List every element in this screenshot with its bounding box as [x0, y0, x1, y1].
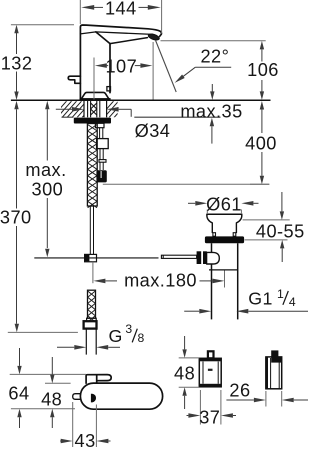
dimension diameter 34 hole	[56, 107, 171, 141]
dimension 106 right	[161, 41, 279, 100]
side cable tube cap	[95, 123, 104, 127]
braided supply hose with cross hatch	[88, 290, 96, 322]
drain body	[211, 243, 213, 319]
dimension 48 control box	[174, 336, 199, 409]
dimension 26 control box depth	[226, 381, 308, 407]
G3/8 threaded nipple	[85, 329, 87, 355]
hose collar	[87, 318, 97, 321]
dimension 48 front view	[41, 357, 71, 428]
rod lower stub below junction	[92, 262, 94, 283]
pop-up rod junction block	[85, 254, 97, 261]
angle 22 degrees with leader	[153, 41, 231, 100]
faucet spout body outline	[80, 25, 161, 100]
svg-text:1: 1	[277, 287, 284, 301]
front view lever handle	[86, 375, 111, 384]
dimension 107	[94, 57, 152, 100]
svg-text:26: 26	[229, 381, 250, 401]
svg-text:max.: max.	[25, 160, 66, 180]
dimension 370 left	[0, 101, 78, 333]
faucet shank in deck section	[88, 101, 100, 117]
svg-text:48: 48	[41, 389, 62, 409]
mounting hole edges in deck	[83, 101, 85, 117]
svg-text:64: 64	[8, 383, 29, 403]
dimension 400	[245, 101, 277, 184]
dimension 132 left	[1, 25, 74, 100]
drain rubber gasket (black band)	[205, 236, 244, 243]
backnut and washer under deck (black)	[74, 118, 111, 124]
side cable tube upper	[99, 128, 101, 139]
svg-text:Ø34: Ø34	[135, 121, 171, 141]
svg-text:144: 144	[105, 0, 137, 18]
svg-text:8: 8	[138, 331, 145, 345]
svg-text:43: 43	[75, 431, 96, 450]
faucet front view body (capsule)	[80, 383, 162, 409]
svg-text:300: 300	[32, 180, 64, 200]
drain flange tabs	[213, 233, 216, 237]
front view sensor window (black)	[91, 394, 96, 403]
svg-text:max.180: max.180	[124, 271, 197, 291]
drain body shoulder line	[209, 269, 238, 271]
dimension max.300	[25, 101, 66, 257]
escutcheon base on deck	[81, 92, 109, 99]
black filter / connector on side tube	[96, 170, 106, 182]
svg-text:132: 132	[1, 54, 33, 74]
dimension diameter 61 drain flange	[188, 194, 259, 214]
control box front view	[199, 358, 221, 387]
pop-up rod vertical thin tube	[89, 206, 91, 254]
drain flange top line	[206, 213, 242, 215]
dimension 64	[8, 348, 86, 428]
svg-text:Ø61: Ø61	[206, 194, 242, 214]
horizontal pop-up rod left segment	[34, 257, 158, 259]
svg-text:22°: 22°	[200, 47, 229, 67]
svg-text:max.35: max.35	[180, 102, 242, 122]
deck top surface line	[11, 99, 271, 101]
dimension 43	[60, 402, 111, 450]
svg-text:40-55: 40-55	[256, 221, 305, 241]
deck bottom line left segment	[62, 116, 74, 118]
control box cable stub	[208, 351, 214, 358]
svg-text:4: 4	[289, 295, 296, 309]
label G1 1/4 with leader	[184, 287, 308, 314]
drain flange outline	[207, 214, 242, 232]
svg-text:G: G	[108, 326, 122, 346]
svg-text:37: 37	[199, 408, 220, 428]
front view supply stub	[73, 394, 81, 400]
dimension 144 top	[80, 0, 161, 33]
aerator outlet (dark)	[148, 33, 160, 41]
drain lever ball housing	[207, 252, 220, 264]
horizontal actuating rod to drain	[161, 255, 196, 258]
svg-text:107: 107	[105, 57, 137, 77]
dimension 40-55 drain deck range	[243, 192, 305, 262]
svg-text:370: 370	[0, 208, 32, 228]
connection height reference line 400	[103, 183, 269, 185]
control box side cable stub (black)	[271, 350, 278, 357]
threaded shank with cross hatch	[87, 124, 97, 208]
deck bottom line right of shank	[134, 116, 220, 118]
side cable tube lower	[99, 149, 101, 160]
svg-text:3: 3	[125, 322, 132, 336]
side tube adjusting nut	[97, 139, 109, 149]
dimension max.35 deck thickness	[180, 84, 242, 144]
dimension 37 control box	[187, 390, 237, 428]
svg-text:400: 400	[245, 133, 277, 153]
svg-text:48: 48	[174, 364, 195, 384]
drain rod clamp (black)	[197, 251, 202, 264]
dimension max.180	[93, 271, 224, 291]
sensor window on body front	[107, 87, 111, 91]
control box side view	[265, 357, 281, 389]
small collar on side tube	[99, 160, 106, 163]
control box inner mark	[208, 369, 213, 371]
temperature lever on back of body	[68, 76, 80, 83]
svg-text:G1: G1	[248, 288, 273, 308]
label G3/8 with arrows	[57, 322, 145, 350]
svg-text:106: 106	[247, 60, 279, 80]
hose G3/8 nut	[84, 321, 97, 328]
